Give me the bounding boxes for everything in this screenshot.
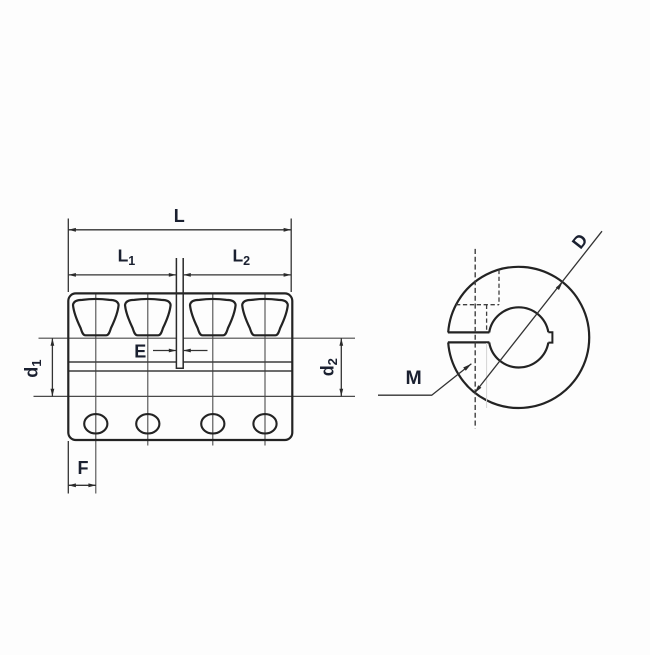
dim d1 line bbox=[51, 338, 53, 396]
arrow L right bbox=[284, 228, 292, 232]
arrow L1 right bbox=[169, 273, 177, 277]
bore circle top arc bbox=[489, 307, 548, 332]
arrow E left bbox=[169, 349, 177, 353]
arrow L2 right bbox=[284, 273, 292, 277]
svg-text:M: M bbox=[405, 367, 421, 389]
arrow F right bbox=[88, 483, 96, 487]
svg-text:L1: L1 bbox=[118, 246, 136, 268]
dim E leader right bbox=[183, 350, 207, 352]
counterbore hidden bottom bbox=[456, 304, 499, 306]
slot 4 bbox=[242, 299, 288, 335]
faint guide line bbox=[486, 343, 488, 408]
screw hole 3 bbox=[201, 414, 224, 433]
dim F extension left bbox=[67, 441, 69, 494]
dim M leader bbox=[378, 364, 471, 396]
clamp slit bottom line bbox=[448, 341, 490, 343]
clamp slit top line bbox=[448, 331, 490, 333]
svg-text:E: E bbox=[134, 341, 146, 361]
arrow d1 top bbox=[51, 338, 55, 346]
arrow L2 left bbox=[183, 273, 191, 277]
arrow d1 bottom bbox=[51, 389, 55, 397]
centerline screw 3 bbox=[212, 294, 214, 446]
arrowheads left view bbox=[51, 228, 344, 487]
coupling body outline bbox=[68, 293, 292, 440]
center slit (gap E) bbox=[176, 258, 183, 368]
screw hole 2 bbox=[136, 414, 159, 433]
dim d2 line bbox=[340, 338, 342, 396]
dim L1 line bbox=[68, 274, 176, 276]
dim E leader left bbox=[153, 350, 176, 352]
screw hole 1 bbox=[84, 414, 107, 433]
bore bottom line d1/d2 extension bbox=[34, 395, 356, 397]
dim L line bbox=[68, 229, 291, 231]
keyway bbox=[548, 332, 552, 342]
svg-text:d1: d1 bbox=[21, 359, 44, 377]
arrow D upper bbox=[556, 282, 563, 290]
arrow L1 left bbox=[68, 273, 76, 277]
bore top line d1/d2 extension bbox=[39, 337, 356, 339]
dim L extension left bbox=[67, 219, 69, 293]
outer circle (with clamp slit gap) bbox=[448, 267, 589, 408]
svg-text:L: L bbox=[174, 206, 185, 226]
screw axis dashed centerline bbox=[474, 249, 476, 429]
slot 3 bbox=[190, 299, 236, 335]
dim L extension right bbox=[290, 219, 292, 293]
centerline screw 1 bbox=[95, 294, 97, 494]
bore circle bottom arc bbox=[489, 342, 548, 367]
slot 1 bbox=[73, 299, 119, 335]
svg-text:L2: L2 bbox=[232, 246, 250, 268]
svg-text:d2: d2 bbox=[317, 358, 340, 376]
centerline screw 2 bbox=[147, 294, 149, 446]
arrow d2 top bbox=[339, 338, 343, 346]
arrow F left bbox=[68, 483, 76, 487]
dim F line bbox=[68, 484, 96, 486]
arrow D lower bbox=[475, 385, 482, 393]
centerline screw 4 bbox=[264, 294, 266, 446]
arrow d2 bottom bbox=[339, 389, 343, 397]
counterbore hidden right edge bbox=[498, 270, 500, 305]
arrow L left bbox=[68, 228, 76, 232]
keyway lower line (side view) bbox=[68, 370, 292, 372]
arrow E right bbox=[183, 349, 191, 353]
slot 2 bbox=[125, 299, 171, 335]
svg-text:F: F bbox=[78, 458, 89, 478]
arrow M bbox=[463, 364, 471, 371]
screw hole 4 bbox=[253, 414, 276, 433]
dim D line bbox=[475, 231, 602, 393]
keyway upper line (side view) bbox=[68, 361, 292, 363]
screw clearance hole hidden edge bbox=[486, 305, 488, 332]
dim L2 line bbox=[183, 274, 291, 276]
